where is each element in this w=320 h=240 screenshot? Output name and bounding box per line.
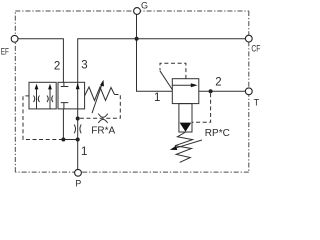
FR*A left box path 2 arrow bbox=[49, 87, 51, 109]
relief valve RP*C main box bbox=[172, 79, 199, 104]
FR*A spring bbox=[85, 87, 115, 101]
RP*C poppet (filled triangle) bbox=[180, 123, 192, 132]
junction riser pilot tap bbox=[76, 117, 80, 121]
FR*A pilot orifice bbox=[98, 114, 107, 123]
port EF bbox=[11, 35, 18, 42]
junction relief outlet bbox=[209, 89, 213, 93]
svg-text:2: 2 bbox=[215, 76, 221, 88]
enclosure boundary (dash-dot border) bbox=[15, 11, 249, 172]
svg-text:EF: EF bbox=[1, 46, 10, 56]
wire net CF/G: horizontal rail bbox=[78, 39, 246, 83]
FR*A main orifice on riser bbox=[74, 125, 81, 134]
svg-text:CF: CF bbox=[251, 44, 260, 54]
FR*A pilot line left (dashed) bbox=[23, 96, 62, 140]
FR*A blocked port bottom bbox=[61, 103, 69, 109]
svg-text:2: 2 bbox=[54, 60, 60, 72]
svg-text:G: G bbox=[141, 0, 148, 10]
wire relief outlet to T bbox=[199, 90, 246, 92]
svg-text:FR*A: FR*A bbox=[91, 126, 115, 137]
wire P riser through valve bbox=[77, 82, 79, 169]
RP*C spring bbox=[175, 132, 193, 162]
RP*C internal flow arrow bbox=[172, 84, 193, 86]
FR*A blocked port top bbox=[61, 82, 69, 86]
svg-text:P: P bbox=[75, 179, 81, 189]
wire EF to valve port 2 bbox=[18, 39, 63, 83]
port CF bbox=[245, 35, 252, 42]
junction riser at branch bbox=[76, 138, 80, 142]
port P bbox=[75, 169, 82, 176]
RP*C drain line (dashed) bbox=[192, 93, 211, 122]
FR*A left box path 2 orifice bbox=[47, 96, 53, 103]
svg-text:RP*C: RP*C bbox=[205, 128, 230, 139]
FR*A adjustment arrow bbox=[92, 85, 102, 113]
wire blocked branch bbox=[63, 109, 77, 140]
RP*C spring chamber box bbox=[179, 104, 192, 132]
FR*A left box path 1 arrow bbox=[36, 87, 38, 109]
FR*A left box path 1 orifice bbox=[34, 96, 40, 103]
svg-text:3: 3 bbox=[81, 60, 87, 72]
svg-text:T: T bbox=[254, 97, 260, 107]
junction branch foot bbox=[61, 138, 65, 142]
flow control valve FR*A: left position box bbox=[29, 82, 56, 109]
FR*A through path arrowhead bbox=[76, 83, 80, 89]
RP*C pilot line (dashed) bbox=[160, 63, 186, 78]
RP*C pilot diagonal bbox=[160, 71, 173, 90]
svg-text:1: 1 bbox=[81, 146, 87, 158]
FR*A pilot line spring side (dashed) bbox=[80, 95, 121, 119]
port G bbox=[134, 8, 141, 15]
svg-text:1: 1 bbox=[154, 92, 160, 104]
port T bbox=[245, 88, 252, 95]
RP*C adjustment arrow bbox=[174, 140, 202, 149]
wire G drop to relief inlet bbox=[137, 15, 173, 92]
FR*A right position box bbox=[58, 82, 85, 109]
junction G rail bbox=[135, 37, 139, 41]
